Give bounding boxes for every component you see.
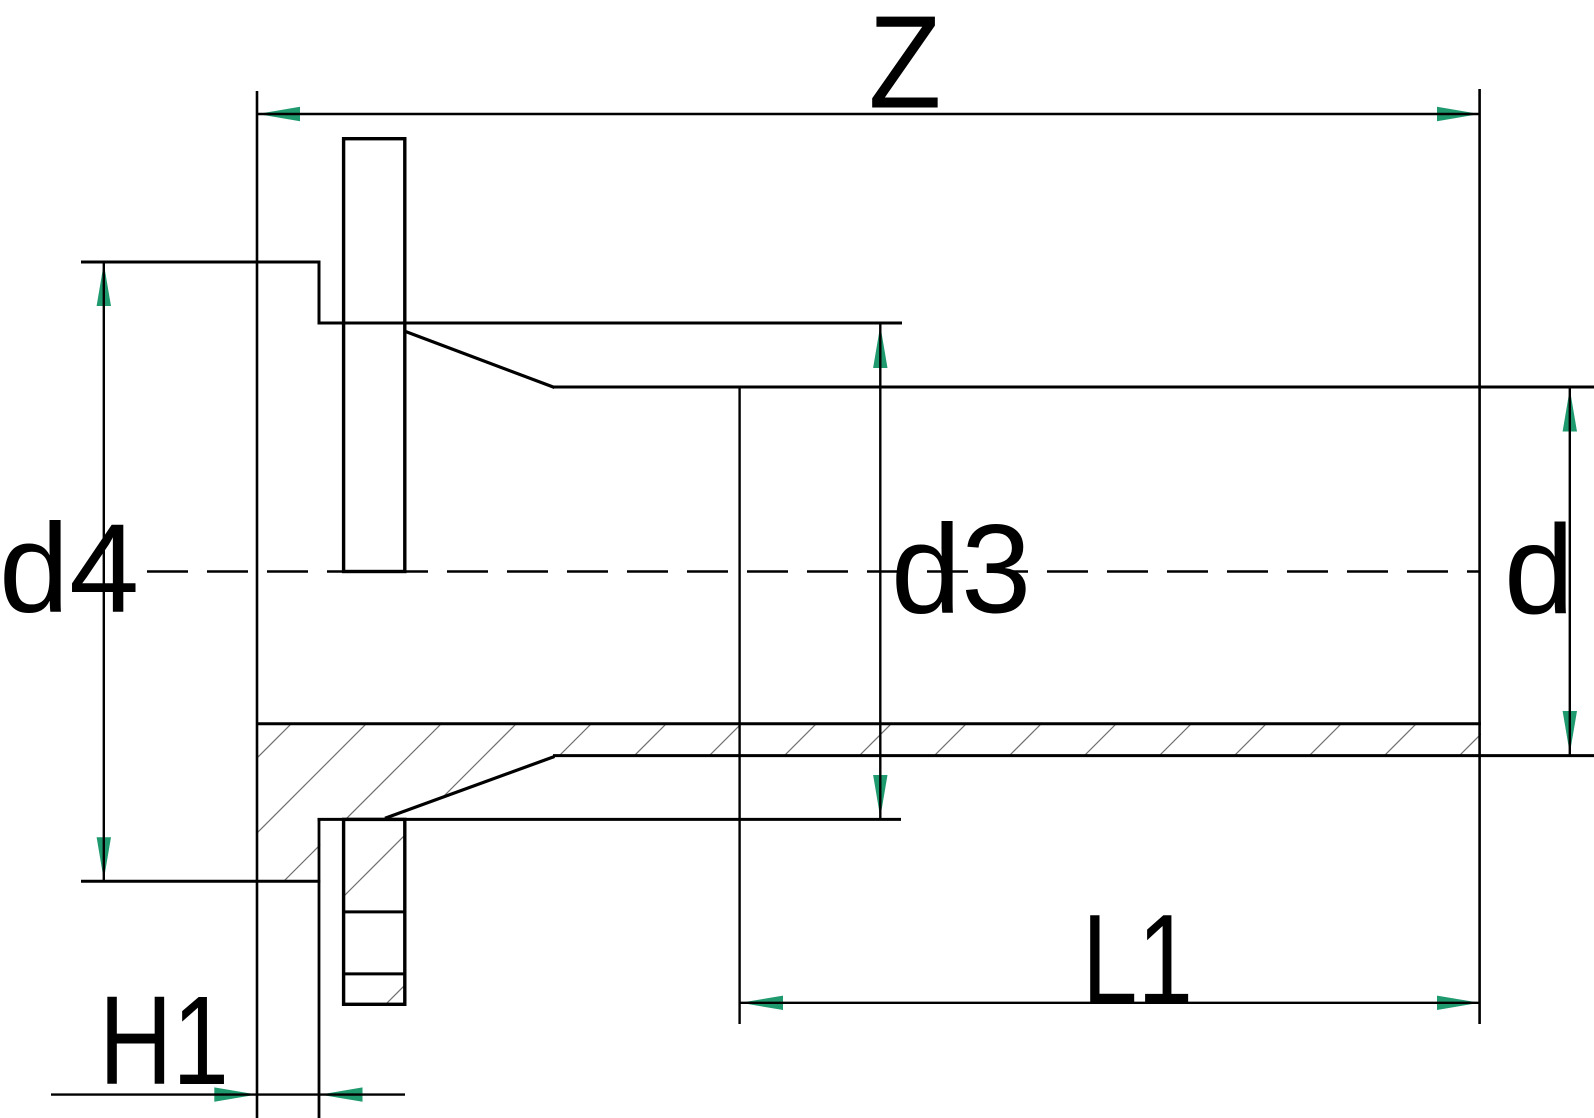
dimension L1 line xyxy=(741,996,784,1010)
dimension d line xyxy=(1563,389,1577,432)
flange front face / Z+H1 extension line xyxy=(256,91,259,1118)
nut / bolt (lower half) xyxy=(344,819,405,1004)
dimension d3 line xyxy=(873,326,887,369)
bolt (upper half) xyxy=(344,139,405,572)
hub outer line bottom (also d3 extension) xyxy=(318,818,902,821)
pipe outer bottom line (also d extension) xyxy=(553,754,1594,757)
svg-text:H1: H1 xyxy=(99,970,229,1111)
taper bottom diagonal xyxy=(385,757,555,819)
svg-text:d: d xyxy=(1504,499,1574,640)
hub outer line top (also d3 extension) xyxy=(318,322,903,325)
hatching of section cut xyxy=(0,690,1594,1030)
flange top face (also d4 extension) xyxy=(81,261,320,264)
wire: dashed centerline xyxy=(147,570,1480,573)
taper top diagonal xyxy=(406,332,555,388)
dimension Z line xyxy=(258,107,301,121)
svg-text:Z: Z xyxy=(868,0,941,136)
flange bottom face (also d4 extension) xyxy=(81,880,320,883)
dimension H1 line xyxy=(214,1087,256,1101)
svg-text:L1: L1 xyxy=(1082,889,1193,1032)
flange back step (top) xyxy=(318,261,321,325)
svg-text:d4: d4 xyxy=(0,498,139,639)
svg-text:d3: d3 xyxy=(891,499,1031,640)
flange back step (bottom) / H1 extension line xyxy=(318,818,321,1118)
bore line (lower half) xyxy=(256,722,1481,725)
L1 extension line xyxy=(738,387,740,1024)
nut divider 2 xyxy=(344,972,405,975)
nut divider 1 xyxy=(344,910,405,913)
pipe outer top line (also d extension) xyxy=(553,386,1594,389)
pipe end / Z + L1 extension line xyxy=(1478,89,1481,1024)
dimension d4 line xyxy=(97,264,111,307)
